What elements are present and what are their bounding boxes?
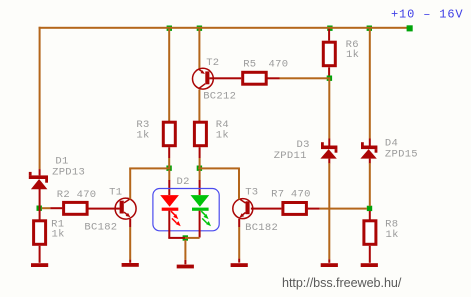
transistor T2 BC212 [193, 68, 214, 89]
wire node A to R2 [42, 207, 50, 209]
wire T1 collector up [129, 168, 131, 199]
svg-text:BC182: BC182 [245, 222, 278, 234]
LED D2 green element [191, 195, 212, 226]
wire T1 emitter stub (red) [129, 219, 131, 227]
wire R8 bottom pin to ground (red) [369, 246, 371, 263]
resistor R7 470 [283, 203, 307, 215]
wire T3 collector up [238, 168, 240, 199]
svg-text:BC212: BC212 [203, 91, 236, 103]
ground symbol for T3 [231, 263, 248, 267]
wire T2 base to R5 (red) [209, 77, 241, 79]
wire green LED anode pin (red) [199, 180, 201, 195]
wire D1 anode pin (red) [39, 189, 41, 196]
node wire end at rail right [407, 25, 413, 31]
wire D4 to node C [369, 163, 371, 206]
wire R4 to mid bus [199, 158, 201, 168]
wire green LED cathode pin (red) [199, 211, 201, 238]
node junction mid bus / red LED [166, 166, 171, 171]
svg-text:http://bss.freeweb.hu/: http://bss.freeweb.hu/ [282, 276, 402, 290]
node junction rail/R6 [327, 26, 332, 31]
svg-text:1k: 1k [346, 49, 359, 61]
svg-text:BC182: BC182 [84, 222, 117, 234]
node A junction R1/R2/D1 [37, 206, 42, 211]
wire R1 bottom pin to ground (red) [39, 246, 41, 263]
wire D2 ground stub (red) [184, 260, 186, 265]
LED package outline D2 [153, 189, 219, 231]
wire green LED node to T3 collector [198, 167, 240, 169]
node junction LED cathodes [183, 235, 188, 240]
wire D1 to node A [39, 196, 41, 207]
wire red LED cathode pin (red) [168, 211, 170, 238]
wire D2 to ground [184, 240, 186, 260]
wire node B down to D3 [328, 79, 330, 139]
wire T3 emitter stub (red) [238, 219, 240, 227]
wire R7 right pin (red) [308, 208, 320, 210]
svg-text:ZPD11: ZPD11 [274, 150, 307, 162]
wire R2 to T1 base (red) [88, 208, 119, 210]
svg-text:D1: D1 [55, 156, 68, 168]
wire T3 base to R7 (red) [251, 208, 282, 210]
svg-text:1k: 1k [136, 129, 149, 141]
ground symbol for T1 [122, 263, 139, 267]
wire rail to R3 [168, 29, 170, 122]
wire LED cathode bus left (red) [168, 237, 185, 239]
wire R2 left pin (red) [50, 207, 62, 209]
wire red LED anode pin (red) [168, 180, 170, 195]
wire D3 ground stub (red) [328, 259, 330, 263]
svg-text:+10 – 16V: +10 – 16V [391, 8, 463, 22]
ground symbol for R1 [31, 263, 48, 267]
zener diode D1 ZPD13 [29, 172, 48, 189]
wire LED cathode bus right [185, 237, 200, 239]
wire R4 bottom pin (red) [199, 147, 201, 158]
svg-text:R7 470: R7 470 [271, 189, 311, 201]
node junction rail/D4 [367, 26, 372, 31]
svg-text:D3: D3 [297, 139, 310, 151]
wire D3 to ground [328, 163, 330, 259]
zener diode D4 ZPD15 [360, 142, 377, 158]
transistor T3 BC182 [233, 199, 253, 219]
resistor R3 1k [163, 122, 175, 146]
node junction rail/R3 [167, 26, 172, 31]
resistor R8 1k [364, 221, 376, 245]
wire R5 to node B [280, 77, 331, 79]
svg-text:D2: D2 [177, 176, 190, 188]
wire R5 right pin (red) [268, 77, 280, 79]
wire T1 ground stub (red) [129, 260, 131, 263]
resistor R4 1k [194, 122, 206, 146]
node junction mid bus / green LED [197, 166, 202, 171]
svg-text:R2 470: R2 470 [57, 189, 97, 201]
wire R1 top pin (red) [39, 207, 41, 221]
wire T1 collector to red LED node [129, 167, 170, 169]
wire T2 collector to R4 [198, 90, 200, 123]
svg-text:1k: 1k [52, 229, 65, 241]
wire red LED anode drop [168, 170, 170, 180]
ground symbol for D3 [321, 263, 338, 267]
wire R6 top pin (red) [328, 29, 330, 41]
transistor T1 BC182 [115, 198, 136, 219]
svg-text:ZPD15: ZPD15 [385, 148, 418, 160]
zener diode D3 ZPD11 [320, 142, 337, 158]
wire R7 to node C [320, 208, 367, 210]
resistor R5 470 [243, 72, 267, 84]
wire D4 anode pin (red) [369, 159, 371, 164]
svg-text:ZPD13: ZPD13 [52, 167, 85, 179]
wire rail down to D4 [369, 29, 371, 139]
svg-text:1k: 1k [216, 129, 229, 141]
wire R6 bottom pin (red) [328, 67, 330, 75]
wire left vertical from rail to D1 [39, 27, 41, 169]
svg-text:T1: T1 [109, 187, 122, 199]
LED D2 red element [160, 195, 181, 226]
wire D3 anode pin (red) [328, 159, 330, 164]
node B junction R5/R6/D3 [327, 76, 332, 81]
wire R3 bottom pin (red) [168, 147, 170, 158]
wire D1 cathode pin (red) [39, 169, 41, 175]
wire T3 emitter to ground [238, 227, 240, 259]
wire green LED anode drop [199, 170, 201, 180]
wire rail to T2 emitter [198, 29, 200, 69]
ground symbol for R8 [361, 263, 378, 267]
svg-text:T3: T3 [245, 187, 258, 199]
resistor R2 470 [64, 202, 88, 214]
resistor R6 1k [323, 42, 335, 65]
wire R3 to mid bus [168, 158, 170, 168]
wire R8 top pin (red) [369, 211, 371, 221]
svg-text:1k: 1k [386, 229, 399, 241]
svg-text:R5: R5 [243, 58, 256, 70]
ground symbol for D2 [177, 265, 194, 269]
wire T1 emitter to ground [129, 227, 131, 260]
resistor R1 1k [34, 221, 46, 245]
wire T3 ground stub (red) [238, 259, 240, 263]
svg-text:470: 470 [269, 58, 289, 70]
svg-text:T2: T2 [206, 57, 219, 69]
wire top power rail [39, 27, 411, 29]
node junction rail/T2 [197, 26, 202, 31]
node C junction R7/D4/R8 [367, 206, 372, 211]
